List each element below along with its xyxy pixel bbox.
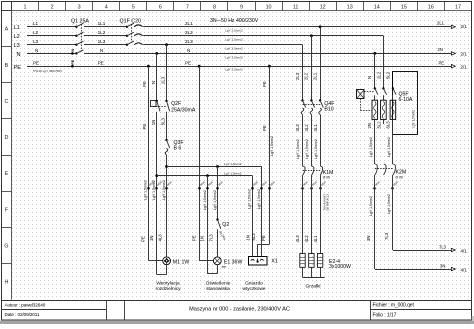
contactor K1M link [303,170,321,172]
svg-text:7: 7 [186,5,189,11]
svg-text:PE: PE [142,81,147,87]
heater E2 element 1 [300,254,305,268]
svg-text:M1 1W: M1 1W [173,259,190,265]
Q5F thermal element 2 [383,95,385,100]
svg-text:1L3: 1L3 [98,39,106,44]
lamp drop reference marks [198,187,201,190]
svg-text:4L1: 4L1 [313,235,318,243]
node 2L1 tap [319,25,322,28]
svg-text:PE: PE [71,59,75,64]
breaker Q4F pole 1 [301,99,303,101]
node 2L2 tap [310,34,313,37]
svg-text:4L2: 4L2 [304,235,309,243]
svg-text:2/1: 2/1 [461,52,468,57]
switch Q1 pole L1 [75,26,77,28]
svg-text:N: N [187,48,190,53]
svg-text:LgY 1,5mm2: LgY 1,5mm2 [270,136,274,156]
svg-text:L1: L1 [33,21,39,26]
svg-text:17: 17 [455,5,461,11]
wire 5L3 after Q2F [166,112,168,140]
svg-text:PE: PE [14,65,22,71]
svg-text:2N: 2N [438,47,443,52]
wire 1N after Q2F [156,112,158,275]
lamp E1 [213,257,221,265]
svg-text:13: 13 [347,5,353,11]
svg-text:LgY 1,5mm2: LgY 1,5mm2 [257,189,261,209]
svg-text:2/1: 2/1 [461,64,468,69]
svg-text:PE: PE [98,61,104,66]
svg-text:2L3: 2L3 [295,72,300,80]
breaker Q1F pole L1 [126,26,128,28]
svg-text:1N: 1N [151,120,156,126]
svg-text:Wentylacja: Wentylacja [156,281,180,287]
svg-text:LgY 1,5mm2: LgY 1,5mm2 [248,189,252,209]
svg-text:5*G16 LgY 450/750V: 5*G16 LgY 450/750V [33,69,63,73]
wire PE drop socket [269,66,271,244]
svg-text:PE: PE [140,236,145,242]
fan drop reference marks [147,187,150,190]
breaker Q4F link [303,104,321,106]
svg-text:6: 6 [159,5,162,11]
svg-text:6L3: 6L3 [386,121,391,129]
wire feeder phase 6L3 [167,166,262,168]
svg-text:2/1: 2/1 [461,24,468,29]
breaker Q3F [165,139,167,141]
svg-text:5L2: 5L2 [386,71,391,79]
svg-text:LgY 1,5mm2: LgY 1,5mm2 [203,190,207,210]
svg-text:PE: PE [191,235,196,241]
svg-text:DK 9MF 4CL3: DK 9MF 4CL3 [326,194,330,211]
svg-text:Θ 09: Θ 09 [396,175,403,179]
node PE drop 1 [147,65,150,68]
svg-text:N: N [71,49,75,52]
svg-text:LgY 1,5mm2: LgY 1,5mm2 [152,180,156,200]
svg-text:B10: B10 [324,107,333,113]
RCD Q2F pole L [165,100,167,102]
socket drop reference marks [251,187,254,190]
svg-text:2L1: 2L1 [437,20,445,25]
wire 2L3 drop to Q2F [166,45,168,101]
contactor K1M pole 2 [311,167,314,175]
motor M1 fan [163,257,171,265]
svg-text:PE: PE [185,61,191,66]
svg-text:1: 1 [24,5,27,11]
svg-text:7L3: 7L3 [439,244,447,249]
node lamp PE tap [198,65,201,68]
svg-text:X1: X1 [271,258,277,264]
svg-text:Q2F: Q2F [171,101,181,107]
svg-text:3N∽50 Hz 400/230V: 3N∽50 Hz 400/230V [210,18,259,24]
svg-text:3N: 3N [366,236,371,242]
svg-text:LgY 1,5mm2: LgY 1,5mm2 [224,162,242,166]
svg-text:Auteur : pawel32640: Auteur : pawel32640 [5,303,46,308]
wire 5L2 stub [383,119,385,124]
switch Q2 [216,218,218,220]
Q5F trip dashed links [364,91,374,93]
svg-text:1L2: 1L2 [98,30,106,35]
wire 6L3 after Q3F [166,155,168,257]
contactor K2M pole 1 [375,165,378,175]
svg-text:14: 14 [374,5,380,11]
svg-text:5: 5 [132,5,135,11]
svg-text:3L2: 3L2 [304,124,309,132]
breaker Q1F pole L2 [126,35,128,37]
svg-text:5L3: 5L3 [161,118,166,126]
switch Q1 link [81,24,83,51]
svg-text:PE: PE [261,235,266,241]
svg-text:25A/30mA: 25A/30mA [171,108,196,114]
wire M1 bottom to N [166,265,168,275]
svg-text:żar.: żar. [222,265,227,269]
RCD Q2F test box [151,101,157,107]
svg-text:3N: 3N [440,263,445,268]
svg-text:L3: L3 [33,39,39,44]
svg-text:15: 15 [401,5,407,11]
contactor K2M pole 2 stub [384,165,387,175]
svg-text:PE: PE [142,124,147,130]
svg-text:B: B [5,63,9,69]
svg-text:PE: PE [262,125,267,131]
wire feeder neutral 1N [157,175,253,177]
svg-text:rozdzielnicy: rozdzielnicy [155,286,181,292]
node lamp N tap [206,174,209,177]
svg-text:4/1: 4/1 [461,267,468,272]
svg-text:N: N [17,52,21,58]
svg-text:11: 11 [293,5,299,11]
breaker Q5F pole 1 [374,87,376,89]
svg-text:H: H [4,280,8,286]
svg-text:LgY 1,5mm2: LgY 1,5mm2 [162,180,166,200]
wire N drop to Q5F [374,53,376,88]
svg-text:Fichier : m_000.qet: Fichier : m_000.qet [373,303,415,309]
row letter band [11,2,13,300]
svg-text:6-10A: 6-10A [399,97,413,103]
node 2L3 drop [165,43,168,46]
wire PE bus [27,66,451,68]
svg-text:4L3: 4L3 [158,234,163,242]
wire L3 bus [27,44,76,46]
breaker Q1F link [131,24,133,42]
svg-text:N: N [35,48,38,53]
contactor K1M pole 1 [303,167,306,175]
node feeder B tap [155,174,158,177]
wire L1 bus [27,26,76,28]
svg-text:L3: L3 [14,43,20,49]
svg-text:stanowiska: stanowiska [206,286,230,292]
svg-text:LgY 1,5mm2: LgY 1,5mm2 [224,171,242,175]
svg-text:L1: L1 [14,25,20,31]
svg-text:LgY 1,5mm2: LgY 1,5mm2 [387,137,391,157]
wire 7L3 after Q2 [217,229,219,257]
switch Q1 pole L3 [75,44,77,46]
wire 7L3 after K2M [392,175,394,250]
svg-text:2L3: 2L3 [185,39,193,44]
wire phase corner to socket [261,167,263,257]
svg-text:N: N [100,48,103,53]
svg-text:N: N [151,81,156,84]
wire 3N after K2M [374,175,376,269]
svg-text:LgY 2,5mm2: LgY 2,5mm2 [225,38,243,42]
switch Q1 pole N [75,52,77,54]
svg-text:Q1 25A: Q1 25A [71,18,89,24]
svg-text:1N: 1N [200,236,205,242]
svg-text:Oświetlenie: Oświetlenie [206,281,231,287]
svg-text:LgY 1,5mm2: LgY 1,5mm2 [296,139,300,159]
page bottom shadow [0,321,474,324]
svg-text:2N: 2N [367,123,372,129]
folio arrow 7L3 [393,250,446,252]
svg-text:LgY 1,5mm2: LgY 1,5mm2 [412,110,416,128]
svg-text:Gniazdo: Gniazdo [245,281,263,287]
heater E2 element 2 [309,254,314,268]
wire loop to Q5F pole 3 [392,72,394,89]
title block frame [2,300,472,302]
svg-text:Q2: Q2 [222,222,229,228]
svg-text:4L3: 4L3 [295,235,300,243]
svg-text:8: 8 [213,5,216,11]
svg-text:Date : 02/09/2011: Date : 02/09/2011 [5,312,40,317]
folio arrow 3N [375,269,446,271]
wire N corner to socket [252,176,254,257]
wire PE drop lamp [199,66,201,261]
wire 2L2 corner to Q5F [383,36,385,89]
contactor K2M link [375,168,393,170]
svg-text:Q1F C20: Q1F C20 [120,18,142,24]
svg-text:10: 10 [266,5,272,11]
svg-text:1N: 1N [149,236,154,242]
svg-text:B 6: B 6 [174,145,182,151]
svg-text:LgY 2,5mm2: LgY 2,5mm2 [225,68,243,72]
wire L2 bus [27,35,76,37]
svg-text:Folio : 1/17: Folio : 1/17 [373,312,397,318]
svg-text:LgY 2,5mm2: LgY 2,5mm2 [225,29,243,33]
svg-text:3x1000W: 3x1000W [329,264,351,270]
wire 2L1 drop [320,27,322,101]
breaker Q5F pole 2 [382,87,384,89]
svg-text:16: 16 [428,5,434,11]
svg-text:12: 12 [320,5,326,11]
svg-text:Maszyna nr 000 - zasilanie, 23: Maszyna nr 000 - zasilanie, 230/400V AC [189,307,290,313]
Q5F thermal element 3 [392,95,394,100]
svg-text:4/1: 4/1 [461,248,468,253]
heater star bus [302,267,304,277]
svg-text:2L2: 2L2 [304,72,309,80]
svg-text:3L3: 3L3 [295,124,300,132]
svg-text:1L1: 1L1 [98,21,106,26]
svg-text:LgY 1,5mm2: LgY 1,5mm2 [305,139,309,159]
contactor K2M pole 3 [393,165,396,175]
socket X1 [249,257,268,266]
K2M reference marks [373,187,376,190]
svg-text:9: 9 [240,5,243,11]
wire PE drop fan [148,66,150,260]
K1M reference marks [301,187,304,190]
svg-text:LgY 1,5mm2: LgY 1,5mm2 [369,196,373,216]
svg-text:E: E [5,171,9,177]
svg-text:LgY 1,5mm2: LgY 1,5mm2 [387,194,391,214]
svg-text:3L1: 3L1 [313,124,318,132]
node lamp phase tap [216,165,219,168]
svg-text:2L2: 2L2 [185,30,193,35]
svg-text:2: 2 [51,5,54,11]
svg-text:2L2: 2L2 [377,71,382,79]
svg-text:LgY 2,5mm2: LgY 2,5mm2 [225,47,243,51]
wire N drop to Q2F [156,53,158,101]
node socket PE tap [268,65,271,68]
svg-text:L2: L2 [33,30,39,35]
svg-text:2L1: 2L1 [312,72,317,80]
wires Q4F to K1M [302,114,304,166]
svg-text:G: G [4,243,8,249]
node N drop 1 [155,52,158,55]
wire 2L2 drop [311,36,313,101]
RCD Q2F pole N [156,100,158,102]
Q5F trip indicator box [357,90,365,99]
node feeder A tap [165,165,168,168]
svg-text:LgY 1,5mm2: LgY 1,5mm2 [213,190,217,210]
svg-text:2L3: 2L3 [161,76,166,84]
wire 2L3 corner drop [302,45,304,101]
wire phase drop lamp [217,167,219,220]
svg-text:Θ 09: Θ 09 [323,176,330,180]
contactor K1M pole 3 [320,167,323,175]
svg-text:7L3: 7L3 [208,234,213,242]
wires K1M to heaters [302,175,304,253]
svg-text:D: D [4,135,8,141]
svg-text:L2: L2 [14,34,20,40]
breaker Q4F pole 3 [319,99,321,101]
svg-text:C: C [4,99,8,105]
RCD Q2F link [153,106,166,108]
Q5F enclosure box [393,72,418,135]
svg-text:LgY 1,5mm2: LgY 1,5mm2 [314,139,318,159]
svg-text:PE: PE [33,61,39,66]
wire N drop lamp [207,176,209,274]
svg-text:PE: PE [262,81,267,87]
svg-text:6L3: 6L3 [251,233,256,241]
svg-text:2L1: 2L1 [185,21,193,26]
wire N bus [27,53,76,55]
breaker Q5F pole 3 [392,87,394,89]
svg-text:wtyczkowe: wtyczkowe [242,286,266,292]
svg-text:PE: PE [439,60,445,65]
svg-text:5L2: 5L2 [377,121,382,129]
column header band [2,10,472,12]
breaker Q4F pole 2 [310,99,312,101]
breaker Q1F pole L3 [126,44,128,46]
svg-text:7L3: 7L3 [384,232,389,240]
switch Q1 pole L2 [75,35,77,37]
wire E1 bottom to N [217,265,219,274]
svg-text:3: 3 [78,5,81,11]
svg-text:A: A [5,27,9,33]
svg-text:LgY 1,5mm2: LgY 1,5mm2 [369,137,373,157]
svg-text:1N: 1N [246,235,251,241]
svg-text:Grzałki: Grzałki [306,284,321,290]
heater E2 element 3 [317,254,322,268]
svg-text:LgY 1,5mm2: LgY 1,5mm2 [144,180,148,200]
wire 6L3 to K2M [392,119,394,164]
svg-text:4: 4 [105,5,108,11]
svg-text:LgY 2,5mm2: LgY 2,5mm2 [225,56,243,60]
svg-text:E1 36W: E1 36W [224,259,243,265]
svg-text:N: N [367,76,372,79]
Q5F thermal element 1 [374,95,376,100]
node N drop 2 [373,52,376,55]
wire 2N to K2M [374,119,376,164]
